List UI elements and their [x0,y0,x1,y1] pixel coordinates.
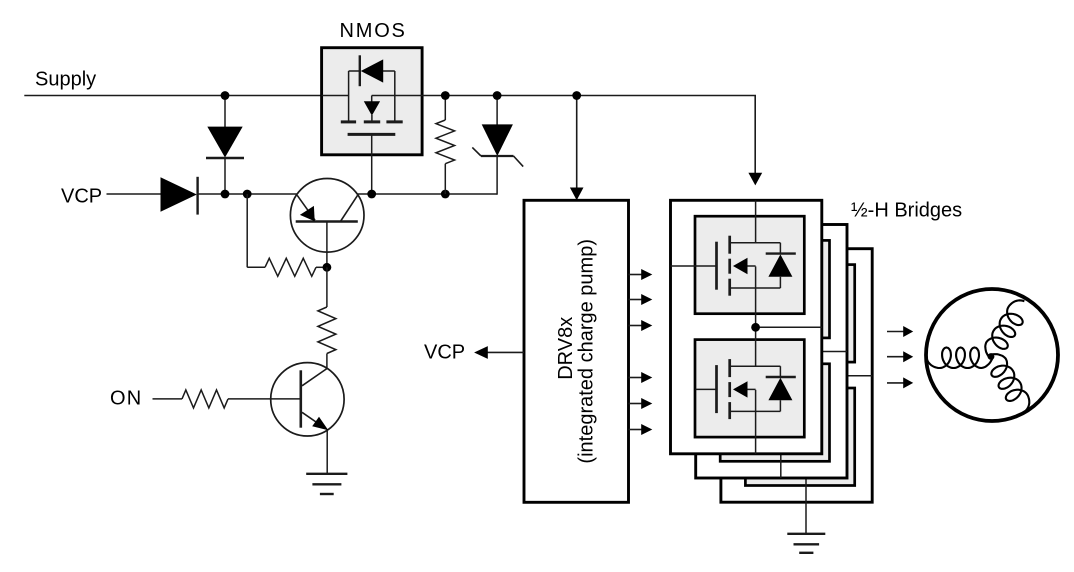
wire R2 to Q2 collector [326,354,328,369]
ground (Q2 emitter) [306,473,347,475]
svg-text:DRV8x: DRV8x [555,317,577,380]
gate drive arrow 5 [629,403,642,405]
phase arrow 1 to motor [887,331,904,333]
transistor Q2 circle [271,363,344,436]
phase arrow 3 to motor [887,382,904,384]
Q2 emitter arrow (NPN, points out) [312,417,328,431]
Q2 emitter diagonal [302,412,324,427]
svg-text:½-H Bridges: ½-H Bridges [851,199,962,221]
wire R4 to Q2 base [228,398,301,400]
Q1 emitter diagonal [297,195,315,220]
Q1 collector diagonal [340,195,357,221]
motor winding lower-right [982,349,1034,417]
wire R3 top leg [444,96,446,121]
gate drive arrow 4 [629,377,642,379]
motor winding left [926,348,993,369]
junction dot VCP/NMOS gate [367,190,376,199]
resistor R4 (ON series, horizontal zigzag) [182,390,228,408]
DRV8x block label (rotated) [555,239,598,464]
wire bridge ground stem [805,502,807,534]
NMOS body-diode cathode bar [359,55,361,86]
diode D1 cathode wire [224,158,226,194]
junction dot VCP/D1 [221,190,230,199]
wire VCP lead [107,193,162,195]
wire R1 left leg [246,194,248,267]
gate drive arrow 2 [629,299,642,301]
NMOS gate bar [348,133,396,136]
wire ON lead [153,398,183,400]
zener Z1 right hook [514,156,524,167]
junction dot supply/Z1 [493,91,502,100]
NMOS left (source) lead [348,71,350,123]
Q2 emitter wire down [326,430,328,474]
resistor R1 (horizontal zigzag) [265,258,316,276]
svg-text:ON: ON [110,387,142,409]
Q1 base bar [296,220,358,223]
transistor Q1 circle [290,179,364,253]
NMOS gate lead down to VCP node [371,134,373,194]
NMOS channel contact bars [341,120,356,123]
wire Supply rail (left segment) [24,95,348,97]
resistor R3 (vertical zigzag) [436,120,455,164]
diode D1 triangle (points down) [207,127,242,158]
wire R3 bottom leg [444,164,446,194]
½-H bridge 3 (back) [721,249,872,502]
arrow VCP out of DRV8x [488,351,525,353]
gate drive arrow 6 [629,429,642,431]
wire VCP node row (diode to Q1 emitter) [198,193,297,195]
svg-text:VCP: VCP [424,342,465,364]
ground (bridges) [787,533,825,535]
motor centre node [988,353,995,360]
Q1 emitter arrow (PNP, points to base) [300,206,315,221]
junction dot supply/D1 [221,91,230,100]
NMOS body-diode anode stub [383,70,395,72]
NMOS bulk arrow (points down) [364,101,380,115]
diode D1 cathode bar [206,157,244,159]
motor circle [926,289,1058,421]
svg-text:Supply: Supply [35,68,96,90]
junction dot VCP/R3 [441,190,450,199]
½-H bridge 2 (middle) [696,225,847,479]
½-H bridge 1 (front) [671,200,822,453]
motor winding upper-right [980,296,1033,364]
zener Z1 cathode bar [481,155,514,157]
svg-text:(integrated charge pump): (integrated charge pump) [576,239,598,464]
Q1 base lead down [326,222,328,268]
wire supply rail through NMOS box (re-draw over fill) [322,95,349,97]
junction dot supply/R3 [441,91,450,100]
resistor R2 (vertical zigzag) [318,307,336,354]
svg-text:NMOS: NMOS [340,20,407,42]
gate drive arrow 3 [629,325,642,327]
Q2 base bar [299,370,302,427]
junction dot VCP/R1 [243,190,252,199]
wire VCP node row (Q1 collector to zener) [358,193,498,195]
svg-text:VCP: VCP [61,186,102,208]
wire R2 top leg [326,267,328,307]
Q2 collector diagonal [302,368,327,385]
junction dot supply/DRV8x feed [572,91,581,100]
arrow supply into DRV8x [576,96,578,189]
diode D1 anode wire [224,96,226,128]
phase arrow 2 to motor [887,356,904,358]
zener Z1 triangle (points down) [482,124,513,156]
NMOS body-diode triangle (points left) [361,59,383,82]
zener Z1 cathode wire [496,156,498,195]
NMOS body-diode cathode stub [349,70,360,72]
wire R1 to base node [316,266,327,268]
wire Supply rail (right segment from NMOS centre) with corner down to bridges [372,96,756,174]
junction dot base node [323,263,332,272]
zener Z1 anode wire [496,96,498,126]
NMOS block box [322,48,423,155]
gate drive arrow 1 [629,274,642,276]
arrow supply into bridges (with gap) [748,173,762,186]
NMOS bulk arrow stem [371,96,373,103]
zener Z1 left hook [472,147,481,156]
NMOS right (drain) lead [394,71,396,123]
diode D2 cathode bar [196,177,198,215]
diode D2 triangle (points right) [161,177,197,211]
DRV8x block box [524,200,629,502]
NMOS bulk arrow stub to channel [371,115,373,123]
